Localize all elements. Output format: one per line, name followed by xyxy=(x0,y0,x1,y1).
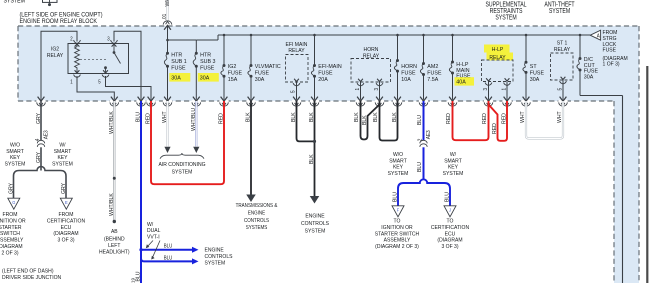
svg-text:5: 5 xyxy=(558,88,564,91)
svg-text:1 OF 3): 1 OF 3) xyxy=(603,62,620,68)
svg-text:1: 1 xyxy=(355,88,361,91)
svg-text:J: J xyxy=(449,207,451,212)
svg-text:KEY: KEY xyxy=(57,155,67,161)
svg-text:AIR CONDITIONING: AIR CONDITIONING xyxy=(158,162,206,168)
svg-text:SMART: SMART xyxy=(389,158,407,164)
svg-text:W/: W/ xyxy=(59,143,66,149)
svg-text:FROM: FROM xyxy=(3,212,18,218)
svg-text:ST: ST xyxy=(530,64,537,70)
svg-text:GRY: GRY xyxy=(8,183,14,194)
svg-text:FUSE: FUSE xyxy=(318,70,332,76)
svg-text:30A: 30A xyxy=(171,76,181,82)
svg-text:EFI MAIN: EFI MAIN xyxy=(286,42,308,48)
svg-text:(LEFT SIDE OF ENGINE COMPT): (LEFT SIDE OF ENGINE COMPT) xyxy=(20,13,103,19)
svg-text:W/: W/ xyxy=(450,152,457,158)
svg-text:WHT/BLU: WHT/BLU xyxy=(191,108,197,131)
svg-text:BLK: BLK xyxy=(392,112,398,122)
svg-text:KEY: KEY xyxy=(393,165,403,171)
svg-text:HEADLIGHT): HEADLIGHT) xyxy=(99,249,130,255)
svg-text:IG2: IG2 xyxy=(51,47,59,53)
svg-text:30A: 30A xyxy=(200,76,210,82)
svg-text:TO: TO xyxy=(394,219,401,225)
svg-text:WHT/BLK: WHT/BLK xyxy=(109,111,115,134)
svg-text:FUSE: FUSE xyxy=(427,70,441,76)
svg-text:ST 1: ST 1 xyxy=(557,41,568,47)
svg-text:FUSE: FUSE xyxy=(255,70,269,76)
svg-text:BLU: BLU xyxy=(445,192,451,202)
svg-text:SWITCH: SWITCH xyxy=(0,231,20,237)
svg-text:DUAL: DUAL xyxy=(147,228,161,234)
svg-text:BLK: BLK xyxy=(309,112,315,122)
svg-text:3 OF 3): 3 OF 3) xyxy=(57,238,74,244)
svg-text:2: 2 xyxy=(70,37,73,43)
svg-text:ENGINE: ENGINE xyxy=(248,210,265,216)
svg-text:(BEHIND: (BEHIND xyxy=(104,237,125,243)
svg-text:.01: .01 xyxy=(162,13,168,20)
svg-text:BLK: BLK xyxy=(291,112,297,122)
svg-text:SYSTEM: SYSTEM xyxy=(305,228,326,234)
svg-text:FUSE: FUSE xyxy=(530,70,544,76)
svg-text:LEFT: LEFT xyxy=(108,243,121,249)
svg-text:BLU: BLU xyxy=(393,192,399,202)
svg-text:EFI-MAIN: EFI-MAIN xyxy=(318,64,341,70)
svg-text:(DIAGRAM 2 OF 3): (DIAGRAM 2 OF 3) xyxy=(375,244,419,250)
svg-text:1: 1 xyxy=(70,79,73,85)
svg-text:SYSTEM: SYSTEM xyxy=(52,161,73,167)
svg-text:FUSE: FUSE xyxy=(603,48,617,54)
svg-text:10A: 10A xyxy=(401,77,411,83)
svg-text:ENGINE: ENGINE xyxy=(305,214,324,220)
svg-text:A: A xyxy=(597,34,600,40)
svg-text:RELAY: RELAY xyxy=(554,47,570,53)
svg-text:SMART: SMART xyxy=(444,158,462,164)
svg-text:BLU: BLU xyxy=(164,244,173,250)
svg-text:STARTER SWITCH: STARTER SWITCH xyxy=(375,231,419,237)
svg-text:RED: RED xyxy=(482,113,488,124)
svg-text:RED: RED xyxy=(146,113,152,124)
svg-text:IGNITION OR: IGNITION OR xyxy=(0,218,26,224)
svg-text:4: 4 xyxy=(35,138,41,141)
svg-text:HORN: HORN xyxy=(401,64,417,70)
svg-text:BLK: BLK xyxy=(373,112,379,122)
svg-text:AB: AB xyxy=(111,229,118,235)
svg-text:FUSE: FUSE xyxy=(200,66,214,72)
svg-text:BLK: BLK xyxy=(246,112,252,122)
svg-text:H-LP: H-LP xyxy=(492,47,504,53)
svg-text:ECU: ECU xyxy=(61,225,72,231)
svg-text:BLK: BLK xyxy=(362,115,368,125)
svg-text:FROM: FROM xyxy=(59,212,74,218)
svg-text:SYSTEM: SYSTEM xyxy=(388,171,409,177)
svg-text:(DIAGRAM: (DIAGRAM xyxy=(53,231,78,237)
svg-text:CONTROLS: CONTROLS xyxy=(205,254,233,260)
svg-text:BLK: BLK xyxy=(309,154,315,164)
svg-text:5: 5 xyxy=(98,79,101,85)
svg-text:40A: 40A xyxy=(456,80,466,86)
svg-text:WHT: WHT xyxy=(162,111,168,123)
svg-text:CERTIFICATION: CERTIFICATION xyxy=(47,218,85,224)
svg-text:GRY: GRY xyxy=(61,183,67,194)
svg-text:BLK: BLK xyxy=(354,112,360,122)
svg-text:2: 2 xyxy=(417,138,423,141)
svg-text:SYSTEM: SYSTEM xyxy=(443,171,464,177)
svg-text:ENGINE: ENGINE xyxy=(205,248,224,254)
svg-text:TRANSMISSIONS &: TRANSMISSIONS & xyxy=(236,203,278,209)
svg-text:ASSEMBLY: ASSEMBLY xyxy=(384,238,411,244)
svg-text:15A: 15A xyxy=(228,77,238,83)
svg-text:BLU: BLU xyxy=(417,162,423,172)
svg-text:RED: RED xyxy=(492,123,498,134)
svg-text:SYSTEM: SYSTEM xyxy=(205,261,226,267)
svg-text:CERTIFICATION: CERTIFICATION xyxy=(431,225,469,231)
svg-text:WHT/BLK: WHT/BLK xyxy=(109,193,115,216)
svg-text:W/: W/ xyxy=(147,222,154,228)
svg-text:W/O: W/O xyxy=(10,143,21,149)
svg-text:WHT: WHT xyxy=(165,0,171,7)
svg-text:SYSTEMS: SYSTEMS xyxy=(246,225,268,231)
svg-text:SYSTEM: SYSTEM xyxy=(549,8,570,15)
svg-text:BLU: BLU xyxy=(136,112,142,122)
svg-text:ECU: ECU xyxy=(445,231,456,237)
svg-text:FUSE: FUSE xyxy=(171,66,185,72)
svg-text:HTR: HTR xyxy=(200,53,211,59)
svg-text:BLU: BLU xyxy=(417,115,423,125)
svg-text:3 OF 3): 3 OF 3) xyxy=(441,244,458,250)
svg-text:SMART: SMART xyxy=(54,149,72,155)
svg-text:ASSEMBLY: ASSEMBLY xyxy=(0,238,24,244)
svg-text:KEY: KEY xyxy=(10,155,20,161)
svg-text:(LEFT END OF DASH): (LEFT END OF DASH) xyxy=(2,269,54,275)
svg-text:SYSTEM: SYSTEM xyxy=(495,14,516,21)
svg-text:GRY: GRY xyxy=(36,113,42,124)
svg-text:GRY: GRY xyxy=(36,152,42,163)
svg-text:30A: 30A xyxy=(530,77,540,83)
svg-text:BLU: BLU xyxy=(136,271,142,281)
svg-text:VVT-I: VVT-I xyxy=(147,234,160,240)
svg-text:WHT: WHT xyxy=(520,111,526,123)
svg-text:19: 19 xyxy=(131,278,136,283)
svg-text:BLU: BLU xyxy=(164,255,173,261)
svg-text:30A: 30A xyxy=(255,77,265,83)
svg-text:DRIVER SIDE JUNCTION: DRIVER SIDE JUNCTION xyxy=(2,275,61,281)
svg-text:FUSE: FUSE xyxy=(401,71,415,77)
svg-text:2 OF 3): 2 OF 3) xyxy=(1,250,18,256)
svg-text:VLVMATIC: VLVMATIC xyxy=(255,64,281,70)
svg-text:IG2: IG2 xyxy=(228,64,237,70)
svg-text:AE3: AE3 xyxy=(43,130,49,139)
svg-text:RELAY: RELAY xyxy=(288,48,304,54)
svg-text:3: 3 xyxy=(483,88,489,91)
svg-text:3: 3 xyxy=(107,37,110,43)
svg-text:E: E xyxy=(65,200,68,205)
svg-text:AM2: AM2 xyxy=(427,64,438,70)
svg-text:SMART: SMART xyxy=(6,149,24,155)
svg-text:3: 3 xyxy=(374,88,380,91)
svg-text:RELAY: RELAY xyxy=(47,53,63,59)
svg-text:HORN: HORN xyxy=(364,47,379,53)
svg-text:SYSTEM: SYSTEM xyxy=(4,0,26,5)
svg-text:5: 5 xyxy=(291,90,297,93)
svg-text:30A: 30A xyxy=(584,74,594,80)
svg-text:RED: RED xyxy=(501,113,507,124)
svg-text:IGNITION OR: IGNITION OR xyxy=(381,225,412,231)
svg-text:1: 1 xyxy=(501,88,507,91)
svg-text:STARTER: STARTER xyxy=(0,225,22,231)
svg-text:RED: RED xyxy=(446,113,452,124)
svg-text:SUB 1: SUB 1 xyxy=(171,59,186,65)
svg-text:(DIAGRAM: (DIAGRAM xyxy=(437,238,462,244)
svg-text:CONTROLS: CONTROLS xyxy=(301,221,329,227)
svg-text:F: F xyxy=(397,207,400,212)
svg-text:ENGINE ROOM RELAY BLOCK: ENGINE ROOM RELAY BLOCK xyxy=(20,19,98,25)
svg-text:SYSTEM: SYSTEM xyxy=(172,169,193,175)
svg-text:WHT: WHT xyxy=(557,111,563,123)
svg-text:20A: 20A xyxy=(318,77,328,83)
svg-text:G: G xyxy=(12,200,15,205)
svg-text:(DIAGRAM: (DIAGRAM xyxy=(0,244,23,250)
svg-text:SYSTEM: SYSTEM xyxy=(5,161,26,167)
svg-text:KEY: KEY xyxy=(448,165,458,171)
svg-text:7.5A: 7.5A xyxy=(427,77,438,83)
svg-text:CONTROLS: CONTROLS xyxy=(244,218,269,224)
svg-text:TO: TO xyxy=(447,219,454,225)
svg-text:FUSE: FUSE xyxy=(228,70,242,76)
svg-text:RED: RED xyxy=(219,113,225,124)
svg-text:AE3: AE3 xyxy=(426,130,432,139)
svg-text:SUB 3: SUB 3 xyxy=(200,59,215,65)
svg-text:HTR: HTR xyxy=(171,53,182,59)
svg-text:W/O: W/O xyxy=(393,152,404,158)
